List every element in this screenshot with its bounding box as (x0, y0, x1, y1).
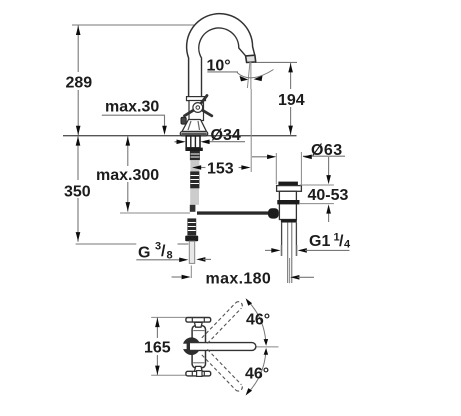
svg-text:/: / (161, 243, 166, 260)
inner pop-up rod in tailpiece (287, 223, 289, 283)
max.180 left extension line (190, 266, 192, 279)
drain seal band (277, 200, 299, 204)
pop-up horizontal rod (197, 211, 269, 214)
dimension 153 (196, 167, 205, 169)
drain body (279, 191, 296, 219)
label max.300 (95, 166, 157, 182)
threaded pipe segment A (190, 151, 200, 160)
top handle stem (194, 322, 202, 327)
svg-text:max.30: max.30 (105, 99, 159, 116)
Ø63 extension lines (275, 153, 277, 184)
supply tube lower (189, 241, 194, 263)
46 degree arc top (248, 301, 266, 341)
aerator cup (246, 55, 256, 62)
dimension 165 line (156, 317, 158, 375)
max.30 leader underline (102, 115, 165, 126)
svg-text:165: 165 (144, 340, 171, 357)
svg-text:max.180: max.180 (206, 271, 272, 288)
10 degree underline (207, 71, 238, 73)
dimension 289 arrows (76, 26, 81, 35)
svg-text:46°: 46° (245, 366, 269, 383)
faucet gooseneck spout inner wall (199, 28, 246, 97)
max.180 left arrow (172, 276, 184, 278)
svg-text:194: 194 (278, 92, 305, 109)
40-53 lower arrow (328, 213, 330, 222)
countertop line (63, 135, 297, 137)
svg-text:4: 4 (344, 239, 351, 251)
max.300 arrows (126, 136, 131, 145)
faucet body upper (189, 101, 204, 121)
svg-text:max.300: max.300 (96, 167, 159, 184)
svg-text:G: G (138, 245, 150, 262)
spout bar top view (190, 343, 256, 351)
dimension 350 line (77, 136, 79, 242)
escutcheon circle (dark) (183, 337, 201, 355)
svg-text:350: 350 (64, 184, 91, 201)
svg-text:153: 153 (207, 161, 234, 178)
spout axis line (257, 346, 279, 348)
vertical extension line from spout tip (250, 89, 252, 172)
G 3/8 underline arrow (136, 259, 181, 261)
threaded pipe segment C (187, 218, 196, 235)
threaded pipe segment B (190, 171, 199, 188)
drain tailpiece (282, 223, 297, 256)
pipe light segment (190, 160, 199, 171)
mounting shank (186, 136, 200, 148)
Ø34 left arrow (175, 141, 179, 143)
svg-text:40-53: 40-53 (308, 187, 349, 204)
dimension 350 arrows (76, 136, 81, 145)
faucet gooseneck spout outer wall (187, 14, 255, 97)
pipe light segment 2 (190, 188, 199, 204)
drain flange (277, 186, 302, 192)
cross handle hub (193, 103, 203, 113)
supply collar (185, 236, 198, 242)
G1 1/4 left arrow (265, 249, 273, 251)
G 3/8 leader to pipe (178, 243, 189, 245)
drain plug cap (278, 182, 298, 186)
shank nut (185, 148, 202, 151)
label 289 (63, 72, 93, 90)
165 bottom extension line (151, 374, 187, 376)
dimension max.300 line (127, 136, 129, 212)
10-degree reference V lines (250, 62, 252, 89)
drain nut (281, 219, 297, 222)
pop-up knob on left (181, 117, 186, 124)
40-53 upper extension line (300, 184, 334, 186)
top reference line (spout height) (72, 24, 221, 26)
G 3/8 right arrow (196, 257, 205, 262)
Ø63 right arrow (303, 155, 312, 160)
Ø63 left arrow (252, 156, 269, 158)
Ø34 right arrow (200, 140, 209, 145)
46 degree arc bottom (248, 353, 266, 393)
label 194 (276, 89, 305, 107)
label 165 (143, 338, 171, 355)
escutcheon (182, 120, 207, 132)
top view body (192, 326, 205, 368)
escutcheon base shade (181, 133, 207, 136)
pipe dark blob above rod (190, 205, 196, 212)
rod elbow joint (268, 208, 279, 218)
max.180 right arrow (290, 275, 299, 280)
svg-text:46°: 46° (246, 312, 270, 329)
escutcheon hatch (188, 121, 191, 130)
Ø63 underline (303, 155, 345, 157)
165 top extension line (151, 316, 187, 318)
165 arrows (155, 318, 160, 327)
max.180 right extension line (289, 258, 291, 283)
svg-text:289: 289 (66, 75, 93, 92)
dashed swung spout down (202, 349, 243, 391)
bottom handle stem (194, 366, 202, 371)
dimension 194 arrows (288, 63, 293, 72)
40-53 upper arrow (328, 157, 330, 176)
40-53 lower extension line (299, 203, 334, 205)
G1 1/4 dimension ticks (280, 245, 282, 256)
Ø34 underline (210, 141, 246, 143)
spout outlet reference line (255, 61, 297, 63)
dimension 289 line (77, 25, 79, 136)
pop-up rod reference line (120, 212, 190, 214)
10 degree arrowheads (240, 76, 249, 82)
bottom handle bar (186, 371, 211, 376)
10 degree arc (237, 70, 274, 78)
350 bottom reference line (76, 243, 137, 245)
dimension 194 line (290, 63, 292, 136)
label 350 (62, 180, 93, 198)
dashed swung spout up (202, 302, 243, 344)
G1 1/4 right arrow with leader (298, 248, 307, 253)
cross handle spokes (198, 96, 207, 108)
svg-text:G1: G1 (309, 233, 330, 250)
faucet collar joint (187, 97, 206, 101)
top handle bar (186, 318, 211, 323)
max.30 arrow (162, 126, 167, 135)
